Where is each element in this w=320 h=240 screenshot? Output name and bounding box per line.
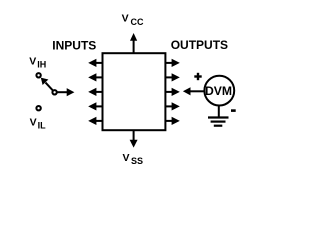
output pin arrow R5 (165, 117, 179, 125)
svg-text:IL: IL (38, 121, 47, 131)
svg-text:SS: SS (131, 156, 143, 166)
output pin arrow R4 (165, 102, 179, 110)
DVM meter circle (204, 76, 234, 106)
plus sign (194, 73, 201, 80)
svg-text:V: V (29, 55, 36, 67)
input pin arrow L4 (88, 102, 102, 110)
switch output arrow wire (57, 88, 74, 96)
switch arm wire with arrowhead toward Vih (41, 78, 53, 91)
svg-text:V: V (122, 12, 129, 24)
Vih contact circle (36, 73, 40, 77)
input pin arrow L5 (88, 117, 102, 125)
output pin arrow R2 (165, 73, 179, 81)
ground wire (218, 106, 220, 118)
svg-text:V: V (123, 152, 130, 164)
minus sign (231, 109, 236, 112)
svg-text:OUTPUTS: OUTPUTS (171, 38, 228, 52)
input pin arrow L1 (88, 59, 102, 67)
ground symbol (208, 118, 229, 126)
svg-text:V: V (30, 117, 37, 129)
input pin arrow L2 (88, 73, 102, 81)
output pin arrow R3 (165, 88, 179, 96)
svg-text:INPUTS: INPUTS (52, 38, 96, 52)
DVM probe wire with arrowhead (left) (183, 87, 205, 95)
output pin arrow R1 (165, 59, 179, 67)
svg-text:IH: IH (37, 60, 46, 70)
switch pole circle (52, 90, 56, 94)
Vil contact circle (36, 106, 40, 110)
input pin arrow L3 (88, 88, 102, 96)
Vcc pin arrow (up) (133, 40, 135, 53)
Vss pin arrow (down) (133, 130, 135, 140)
device under test box U1 (103, 53, 166, 130)
svg-text:DVM: DVM (205, 84, 232, 98)
svg-text:CC: CC (131, 17, 144, 27)
